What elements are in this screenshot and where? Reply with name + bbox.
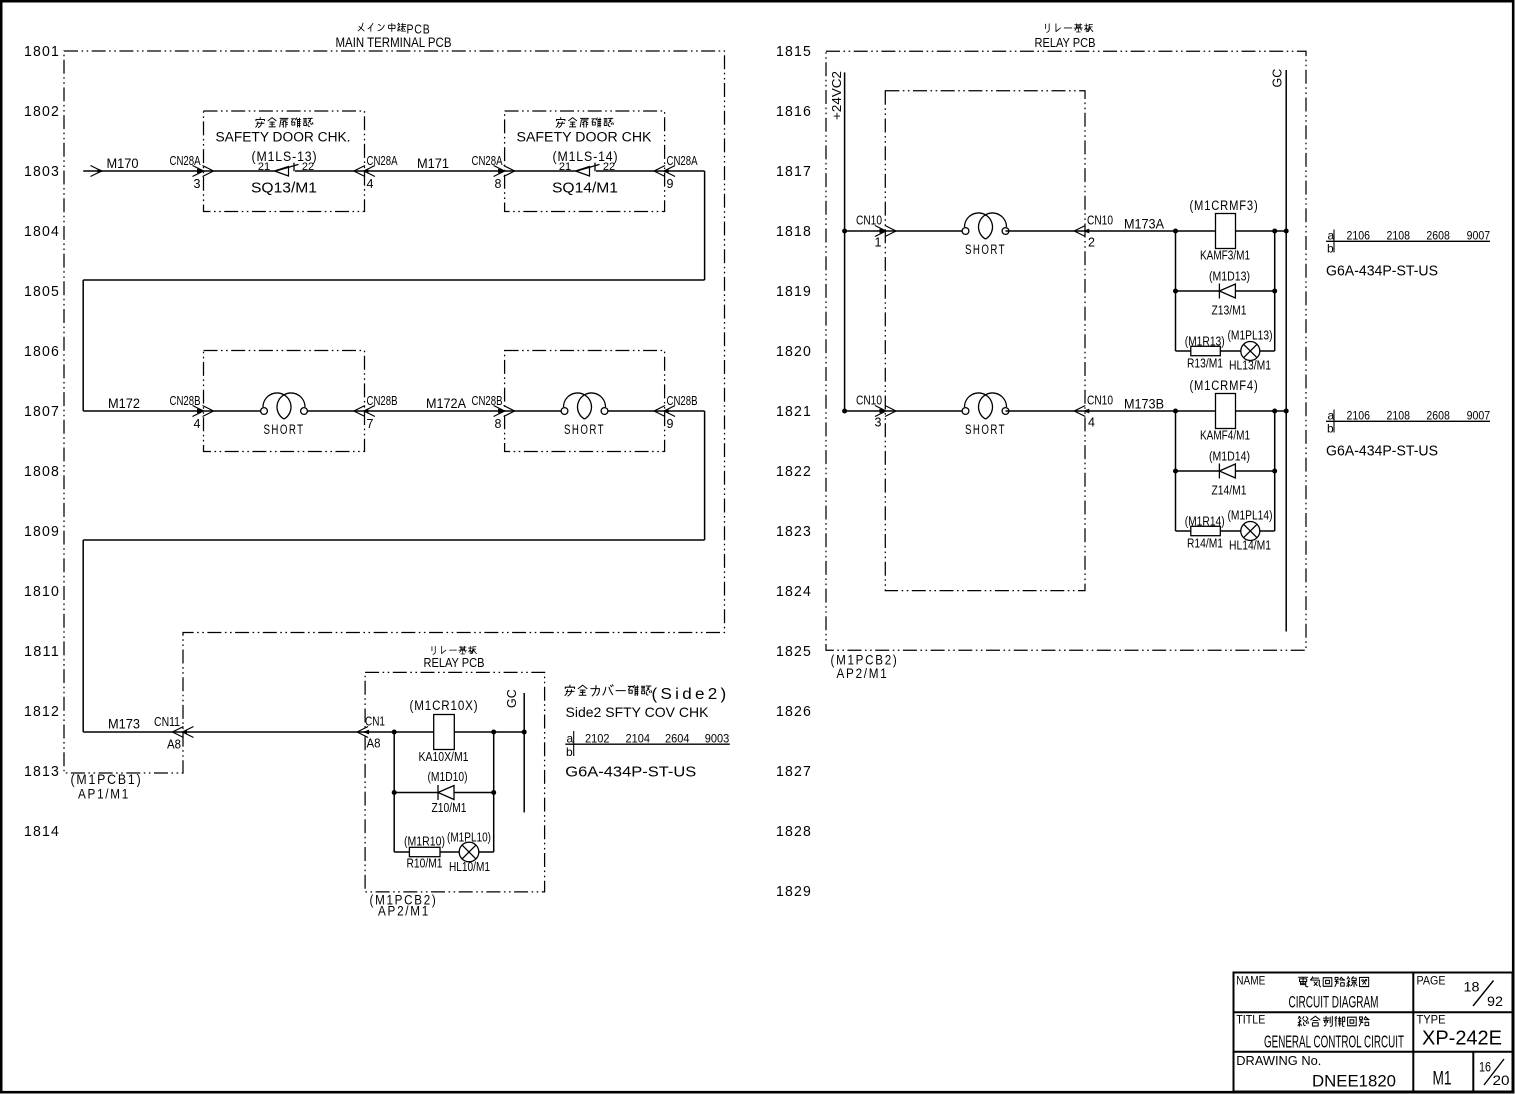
svg-text:KAMF4/M1: KAMF4/M1: [1200, 428, 1250, 443]
svg-text:1804: 1804: [24, 224, 60, 240]
indicator lamp HL10/M1: [459, 842, 479, 862]
wire diode row (y=792.5): [394, 792, 494, 794]
svg-text:M172: M172: [108, 396, 140, 411]
svg-text:1812: 1812: [24, 704, 60, 720]
svg-text:(M1PCB1): (M1PCB1): [71, 772, 143, 787]
connector CN28B pin 4 (box1 left): [170, 394, 214, 431]
wire CN10 to short plug (y=231): [886, 230, 966, 232]
connector CN10 pin 4: [1074, 394, 1113, 430]
diode Z13/M1: [1219, 284, 1235, 299]
wire M173A (y=231): [1085, 230, 1215, 232]
connector CN28B pin 9 (box2 right): [654, 394, 697, 431]
svg-text:CN1: CN1: [365, 715, 385, 729]
svg-text:M173A: M173A: [1124, 217, 1164, 232]
svg-text:CN28A: CN28A: [667, 154, 699, 168]
svg-text:1823: 1823: [776, 524, 812, 540]
svg-text:(Side2): (Side2): [652, 686, 730, 703]
svg-text:+24VC2: +24VC2: [830, 71, 844, 120]
wire inside short box 2 left: [505, 410, 565, 412]
svg-text:AP2/M1: AP2/M1: [378, 904, 430, 919]
svg-text:R10/M1: R10/M1: [407, 856, 443, 871]
junction node (1274.7,291): [1272, 289, 1277, 294]
junction node (1175.5,231): [1173, 229, 1178, 234]
svg-text:1828: 1828: [776, 824, 812, 840]
svg-text:1814: 1814: [24, 824, 60, 840]
wire M172 (row 1807): [83, 410, 203, 412]
svg-text:(M1R10): (M1R10): [404, 835, 445, 849]
svg-text:G6A-434P-ST-US: G6A-434P-ST-US: [1326, 264, 1438, 280]
junction node GC (1286,231): [1284, 229, 1289, 234]
svg-text:M171: M171: [417, 156, 449, 171]
svg-text:18: 18: [1464, 980, 1480, 995]
svg-text:CN10: CN10: [856, 214, 882, 228]
svg-text:CN28B: CN28B: [472, 394, 503, 408]
connector CN28B pin 7 (box1 right): [354, 394, 398, 431]
wire lamp row (y=351): [1176, 350, 1275, 352]
wire coil to GC (y=411): [1236, 410, 1287, 412]
svg-text:2106: 2106: [1347, 229, 1371, 243]
connector CN28A pin 3 (SQ13 left): [170, 154, 214, 191]
sheet number 16/20: [1479, 1059, 1510, 1088]
wire diode row (y=291): [1176, 290, 1275, 292]
svg-text:GENERAL CONTROL CIRCUIT: GENERAL CONTROL CIRCUIT: [1264, 1032, 1404, 1052]
GC bus line (bottom box): [523, 693, 525, 812]
svg-text:CN28B: CN28B: [667, 394, 698, 408]
svg-text:R13/M1: R13/M1: [1187, 356, 1223, 371]
connector CN10 pin 1: [856, 214, 896, 250]
svg-text:1802: 1802: [24, 104, 60, 120]
GC bus line (right box): [1285, 70, 1287, 632]
connector CN28A pin 4 (SQ13 right): [354, 154, 398, 191]
label メイン中継PCB: [358, 22, 430, 37]
svg-text:2108: 2108: [1387, 229, 1411, 243]
wire inside SQ14 box right: [596, 170, 665, 172]
wire inside SQ14 box left: [505, 170, 576, 172]
svg-text:G6A-434P-ST-US: G6A-434P-ST-US: [565, 765, 696, 781]
svg-text:M173: M173: [108, 717, 140, 732]
wire-list a/b (2106 2108 2608 9007): [1326, 229, 1490, 256]
svg-text:1811: 1811: [24, 644, 60, 660]
signal-source chevron arrow M170: [91, 166, 102, 177]
svg-text:1827: 1827: [776, 764, 812, 780]
relay coil KAMF3/M1: [1216, 214, 1236, 249]
svg-text:SHORT: SHORT: [965, 242, 1006, 257]
svg-text:(M1CR10X): (M1CR10X): [410, 698, 479, 713]
svg-text:4: 4: [367, 177, 374, 191]
relay coil KAMF4/M1: [1216, 394, 1236, 429]
svg-text:2608: 2608: [1426, 229, 1450, 243]
svg-text:1809: 1809: [24, 524, 60, 540]
wire from box2 to right drop (row 1807): [665, 410, 705, 412]
svg-text:1807: 1807: [24, 404, 60, 420]
connector CN28A pin 9 (SQ14 right): [654, 154, 698, 191]
svg-text:9007: 9007: [1467, 409, 1491, 423]
wire M173 (row 1812): [83, 731, 365, 733]
junction node (1175.5,291): [1173, 289, 1178, 294]
row reference labels 1815-1829 (right column): [776, 44, 812, 900]
svg-text:RELAY PCB: RELAY PCB: [1035, 35, 1096, 50]
junction node supply rail (844,411): [842, 409, 847, 414]
svg-text:92: 92: [1487, 994, 1503, 1009]
label リレー基板 (bottom box): [432, 646, 477, 654]
svg-text:M1: M1: [1433, 1069, 1452, 1090]
svg-text:RELAY PCB: RELAY PCB: [424, 655, 485, 670]
svg-text:a: a: [567, 732, 574, 746]
label 安全扉確認 (SQ14): [556, 117, 613, 127]
branch wire right vertical (493.7,732-852): [493, 732, 495, 852]
page number 18/92: [1464, 980, 1504, 1010]
junction node (1175.5,411): [1173, 409, 1178, 414]
svg-text:1822: 1822: [776, 464, 812, 480]
short plug symbol CN10 3-4: [962, 393, 1009, 437]
resistor R10/M1: [409, 847, 440, 856]
svg-text:A8: A8: [367, 737, 381, 751]
junction node (394,792.5): [392, 790, 397, 795]
svg-text:9007: 9007: [1467, 229, 1491, 243]
svg-text:DNEE1820: DNEE1820: [1312, 1072, 1396, 1091]
svg-text:1813: 1813: [24, 764, 60, 780]
wire supply to CN10 (row y=231): [845, 230, 886, 232]
main terminal PCB enclosure box AP1/M1: [64, 51, 725, 773]
connector CN1 pin A8 (relay box entry): [357, 715, 385, 751]
resistor R13/M1: [1191, 346, 1221, 355]
wire lamp row (y=531): [1176, 530, 1275, 532]
svg-text:2102: 2102: [585, 732, 610, 746]
wire short plug to CN10 out (y=231): [1006, 230, 1086, 232]
svg-text:1803: 1803: [24, 164, 60, 180]
svg-text:XP-242E: XP-242E: [1422, 1028, 1502, 1050]
svg-text:CN10: CN10: [856, 394, 882, 408]
svg-text:1806: 1806: [24, 344, 60, 360]
svg-text:1824: 1824: [776, 584, 812, 600]
svg-text:HL13/M1: HL13/M1: [1229, 358, 1271, 373]
svg-text:SQ13/M1: SQ13/M1: [251, 181, 317, 197]
svg-text:GC: GC: [1271, 69, 1285, 88]
wire from SQ14 to right drop (row 1803): [665, 170, 705, 172]
wire vertical drop at x=704 (1803 to 1805): [704, 171, 706, 280]
svg-text:SQ14/M1: SQ14/M1: [552, 181, 618, 197]
svg-text:2108: 2108: [1387, 409, 1411, 423]
svg-text:A8: A8: [167, 738, 181, 752]
svg-text:G6A-434P-ST-US: G6A-434P-ST-US: [1326, 444, 1438, 460]
svg-text:b: b: [1327, 422, 1334, 436]
short plug symbol CN10 1-2: [962, 213, 1009, 257]
svg-text:AP1/M1: AP1/M1: [78, 787, 130, 802]
branch wire left vertical (1175.5,231-351): [1175, 231, 1177, 351]
svg-text:1818: 1818: [776, 224, 812, 240]
svg-text:1805: 1805: [24, 284, 60, 300]
diode Z14/M1: [1219, 464, 1235, 479]
wire horizontal return (row 1805): [83, 279, 704, 281]
svg-text:TITLE: TITLE: [1236, 1015, 1265, 1027]
junction node (493.7,792.5): [491, 790, 496, 795]
wire inside SQ13 box right: [295, 170, 364, 172]
short plug symbol 2: [561, 393, 608, 437]
junction node (1274.7,471): [1272, 469, 1277, 474]
svg-text:HL10/M1: HL10/M1: [449, 859, 490, 874]
svg-text:SAFETY DOOR CHK: SAFETY DOOR CHK: [517, 130, 652, 145]
svg-text:1819: 1819: [776, 284, 812, 300]
+24VC2 supply rail: [844, 72, 846, 411]
wire horizontal return (row 1809): [83, 539, 704, 541]
svg-text:CN11: CN11: [154, 715, 180, 729]
label 安全扉確認 (SQ13): [256, 117, 313, 127]
svg-text:9: 9: [667, 177, 674, 191]
svg-text:(M1PL14): (M1PL14): [1228, 509, 1273, 523]
svg-text:M172A: M172A: [426, 396, 466, 411]
svg-text:CN28A: CN28A: [472, 154, 504, 168]
junction node GC (1286,411): [1284, 409, 1289, 414]
indicator lamp HL13/M1: [1241, 342, 1260, 361]
junction node (1274.7,231): [1272, 229, 1277, 234]
svg-text:SAFETY DOOR CHK.: SAFETY DOOR CHK.: [216, 130, 351, 145]
wire vertical at x=83 (1805 to 1807): [82, 280, 84, 411]
svg-text:MAIN TERMINAL PCB: MAIN TERMINAL PCB: [336, 35, 452, 50]
svg-text:1810: 1810: [24, 584, 60, 600]
junction node GC (524,732): [522, 730, 527, 735]
svg-text:SHORT: SHORT: [564, 422, 605, 437]
svg-text:(M1PL13): (M1PL13): [1228, 329, 1273, 343]
short plug symbol 1: [261, 393, 308, 437]
svg-text:KA10X/M1: KA10X/M1: [419, 749, 469, 764]
svg-text:(M1PL10): (M1PL10): [447, 831, 491, 845]
svg-text:SHORT: SHORT: [264, 422, 305, 437]
svg-text:CN10: CN10: [1087, 394, 1113, 408]
wire-list a/b (2106 2108 2608 9007): [1326, 409, 1490, 436]
wire CN1 to coil KA10X (row 1812): [365, 731, 434, 733]
svg-text:3: 3: [875, 416, 882, 430]
svg-text:(M1D13): (M1D13): [1209, 269, 1250, 284]
relay coil KA10X/M1: [434, 715, 455, 750]
svg-text:(M1CRMF4): (M1CRMF4): [1190, 378, 1259, 393]
title 総合制御回路: [1298, 1016, 1369, 1026]
wire vertical at x=83 (1809 to 1812): [82, 540, 84, 732]
junction node (394,732): [392, 730, 397, 735]
connector CN10 pin 3: [856, 394, 896, 430]
wire CN10 to short plug (y=411): [886, 410, 966, 412]
resistor R14/M1: [1191, 526, 1221, 535]
branch wire left vertical (1175.5,411-531): [1175, 411, 1177, 531]
svg-text:b: b: [1327, 242, 1334, 256]
junction node (493.7,732): [491, 730, 496, 735]
connector CN28A pin 8 (SQ14 left): [472, 154, 515, 191]
row reference labels 1801-1814 (left column): [24, 44, 60, 840]
svg-text:20: 20: [1493, 1073, 1510, 1088]
svg-text:(M1D14): (M1D14): [1209, 449, 1250, 464]
svg-text:SHORT: SHORT: [965, 422, 1006, 437]
inner connector box CN10: [885, 91, 1085, 591]
svg-text:2104: 2104: [626, 732, 651, 746]
svg-text:CN28A: CN28A: [170, 154, 202, 168]
svg-text:4: 4: [194, 417, 201, 431]
svg-text:b: b: [566, 745, 573, 759]
svg-text:4: 4: [1088, 416, 1095, 430]
svg-text:1815: 1815: [776, 44, 812, 60]
NC contact SQ14: [576, 163, 600, 176]
connector CN11 pin A8 (main box exit): [154, 715, 194, 752]
svg-text:1821: 1821: [776, 404, 812, 420]
annotation 安全カバー確認(Side2): [565, 685, 729, 703]
svg-text:Side2 SFTY COV CHK: Side2 SFTY COV CHK: [566, 704, 710, 720]
svg-text:1808: 1808: [24, 464, 60, 480]
svg-text:KAMF3/M1: KAMF3/M1: [1200, 248, 1250, 263]
junction node supply rail (844,231): [842, 229, 847, 234]
svg-text:DRAWING No.: DRAWING No.: [1236, 1054, 1321, 1068]
svg-text:AP2/M1: AP2/M1: [837, 666, 889, 681]
svg-text:16: 16: [1479, 1060, 1491, 1075]
svg-text:2106: 2106: [1347, 409, 1371, 423]
relay PCB enclosure box AP2/M1 (right): [826, 51, 1306, 650]
wire lamp row (y=852): [394, 851, 494, 853]
svg-text:NAME: NAME: [1236, 976, 1265, 988]
svg-text:CN10: CN10: [1087, 214, 1113, 228]
wire M172A (row 1807): [364, 410, 504, 412]
shorting-plug box 2 (CN28B 8-9): [505, 351, 665, 452]
svg-text:(M1R13): (M1R13): [1185, 335, 1225, 349]
wire inside short box 1 right: [304, 410, 364, 412]
wire short plug to CN10 out (y=411): [1006, 410, 1086, 412]
svg-text:M173B: M173B: [1124, 397, 1164, 412]
limit switch SQ14/M1 box (M1LS-14): [505, 111, 665, 212]
wire inside SQ13 box left: [204, 170, 275, 172]
svg-text:2: 2: [1088, 236, 1095, 250]
svg-text:8: 8: [495, 177, 502, 191]
relay PCB box AP2/M1 (bottom): [365, 672, 544, 892]
wire diode row (y=471): [1176, 470, 1275, 472]
svg-text:M170: M170: [107, 156, 139, 171]
svg-text:1816: 1816: [776, 104, 812, 120]
title block table: [1234, 973, 1513, 1092]
svg-text:1: 1: [875, 236, 882, 250]
svg-text:1801: 1801: [24, 44, 60, 60]
svg-text:1826: 1826: [776, 704, 812, 720]
wire-list a/b (2102 2104 2604 9003): [565, 731, 730, 759]
svg-text:PAGE: PAGE: [1417, 976, 1446, 988]
diode Z10/M1: [438, 785, 454, 800]
svg-text:Z10/M1: Z10/M1: [432, 800, 467, 815]
wire M171 (row 1803): [364, 170, 504, 172]
svg-text:(M1CRMF3): (M1CRMF3): [1190, 198, 1259, 213]
svg-text:1817: 1817: [776, 164, 812, 180]
svg-text:7: 7: [367, 417, 374, 431]
svg-text:R14/M1: R14/M1: [1187, 536, 1223, 551]
svg-text:CIRCUIT DIAGRAM: CIRCUIT DIAGRAM: [1289, 994, 1379, 1012]
svg-text:2608: 2608: [1426, 409, 1450, 423]
wire vertical drop at x=704 (1807 to 1809): [704, 411, 706, 540]
svg-text:HL14/M1: HL14/M1: [1229, 538, 1271, 553]
connector CN10 pin 2: [1074, 214, 1113, 250]
branch wire right vertical (1274.7,411-531): [1274, 411, 1276, 531]
svg-text:(M1D10): (M1D10): [428, 769, 468, 784]
svg-text:Z14/M1: Z14/M1: [1212, 483, 1247, 498]
svg-text:GC: GC: [505, 689, 519, 708]
svg-text:9: 9: [667, 417, 674, 431]
svg-text:1820: 1820: [776, 344, 812, 360]
svg-text:CN28A: CN28A: [367, 154, 399, 168]
branch wire left vertical (394,732-852): [393, 732, 395, 852]
svg-text:9003: 9003: [705, 732, 730, 746]
NC contact SQ13: [275, 163, 299, 176]
wire M173B (y=411): [1085, 410, 1215, 412]
svg-text:2604: 2604: [665, 732, 690, 746]
wire coil to GC (row 1812): [454, 731, 524, 733]
connector CN28B pin 8 (box2 left): [472, 394, 515, 431]
svg-text:1825: 1825: [776, 644, 812, 660]
svg-text:CN28B: CN28B: [170, 394, 201, 408]
indicator lamp HL14/M1: [1241, 522, 1260, 541]
svg-text:TYPE: TYPE: [1417, 1015, 1446, 1027]
wire M170 (row 1803): [83, 170, 203, 172]
svg-text:8: 8: [495, 417, 502, 431]
svg-text:(M1R14): (M1R14): [1185, 515, 1225, 529]
branch wire right vertical (1274.7,231-351): [1274, 231, 1276, 351]
junction node (1274.7,411): [1272, 409, 1277, 414]
junction node (1175.5,471): [1173, 469, 1178, 474]
svg-text:Z13/M1: Z13/M1: [1212, 303, 1247, 318]
svg-text:CN28B: CN28B: [367, 394, 398, 408]
label リレー基板 (right box): [1046, 24, 1093, 33]
shorting-plug box 1 (CN28B 4-7): [204, 351, 365, 452]
svg-text:1829: 1829: [776, 884, 812, 900]
wire inside short box 1 left: [204, 410, 265, 412]
wire supply to CN10 (row y=411): [845, 410, 886, 412]
title 電気回路線図: [1299, 977, 1369, 987]
wire inside short box 2 right: [605, 410, 665, 412]
limit switch SQ13/M1 box (M1LS-13): [204, 111, 365, 212]
svg-text:3: 3: [194, 177, 201, 191]
wire coil to GC (y=231): [1236, 230, 1287, 232]
